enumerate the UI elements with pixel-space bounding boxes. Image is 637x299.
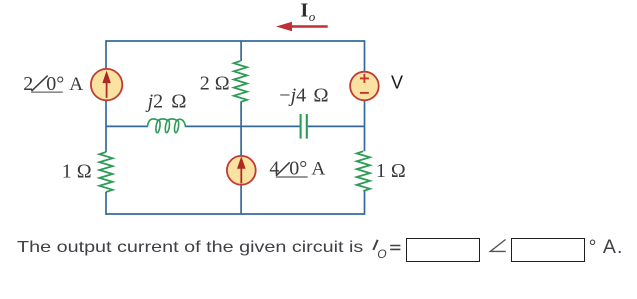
svg-text:2 Ω: 2 Ω [200,73,230,95]
Io current arrow (red, pointing left) [276,22,328,32]
wire bottom [106,213,365,215]
voltage source plus sign [360,74,369,83]
wire right vertical upper [364,40,366,151]
question sentence [17,239,363,257]
resistor 1ohm (right branch) [357,151,370,191]
voltage source minus sign [360,92,369,94]
wire middle horizontal right segment [308,125,365,127]
wire middle vertical upper [240,41,242,61]
svg-text:1 Ω: 1 Ω [62,160,92,182]
angle symbol [488,238,508,254]
current source left arrow [102,71,111,98]
svg-text:A: A [311,158,325,179]
svg-text:V: V [391,73,403,93]
svg-text:−j4: −j4 [279,84,306,106]
current source 4 angle 0 A (middle) circle [227,156,256,185]
svg-text:1 Ω: 1 Ω [376,160,406,182]
wire left vertical upper [105,40,107,152]
svg-text:I: I [301,0,309,21]
resistor 2ohm (middle branch) [234,61,247,102]
svg-text:Ω: Ω [171,91,186,113]
wire right vertical lower [364,191,366,215]
answer box 1 (magnitude) [406,238,480,261]
svg-text:Ω: Ω [313,84,328,106]
answer box 2 (angle) [511,238,585,261]
resistor 1ohm (left branch) [99,152,112,192]
current source middle arrow [237,156,246,183]
wire left vertical lower [105,192,107,215]
wire middle horizontal center segment [186,125,300,127]
inductor j2ohm [147,119,185,133]
voltage source V circle [350,72,379,101]
svg-text:4: 4 [269,157,279,179]
degrees A suffix [589,236,624,259]
label 4 angle 0 deg A [269,157,325,179]
label 2 angle 0 deg A [23,73,83,95]
wire middle vertical lower [240,102,242,214]
svg-text:o: o [309,9,316,24]
current source 2 angle 0 A (left) circle [91,69,122,100]
capacitor -j4ohm plate left [300,114,302,139]
wire top [106,40,365,42]
wire middle horizontal left segment [106,125,147,127]
svg-text:A: A [69,74,83,95]
formula Io = [369,238,405,260]
capacitor -j4ohm plate right [306,114,308,139]
svg-text:0°: 0° [289,157,307,179]
svg-text:j2: j2 [145,91,164,113]
